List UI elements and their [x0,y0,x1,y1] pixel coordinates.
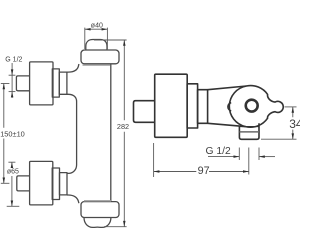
dim 282 bottom ext line [104,226,127,228]
dim G1/2 left bottom tick [9,91,16,93]
side stub [134,101,155,123]
cone to handle top edge [208,86,247,90]
arrowheads [3,28,295,227]
side block [155,74,188,137]
handle knob circle left part [229,86,246,127]
svg-text:G 1/2: G 1/2 [5,57,22,64]
dim 97 line [154,171,249,173]
svg-text:ø40: ø40 [91,22,103,29]
dim 150 bottom tick [1,182,10,184]
body left edge with fillets [67,94,77,173]
spout centerline ext (97 dim) [248,148,250,175]
dim 282 top ext line [94,39,127,41]
dim 282 line [123,40,125,227]
dim ø65 bottom tick [7,205,20,207]
dim 34 top ext line [285,106,297,108]
connector 2 top [59,72,67,94]
dim G1/2 left line [11,63,13,98]
side connector 2 [198,90,208,124]
282 arrows [123,40,126,46]
inlet block bottom [30,161,53,205]
svg-text:ø65: ø65 [7,169,19,176]
cone to handle bottom edge [208,123,246,126]
ø65 arrows [11,162,14,168]
connector 1 top [52,69,59,97]
labels [0,22,129,175]
dim ø65 line [11,162,13,206]
outlet spout [239,123,259,139]
dim 97 left ext line [153,143,155,177]
97 arrows [154,170,160,173]
connector 1 bottom [52,168,59,200]
dim 150 top tick [1,83,10,85]
spout top edge [239,126,259,128]
handle left notch [228,103,231,111]
bottom collar seam line [84,200,111,202]
150 arrows [3,84,6,90]
dim ø40 right ext line [106,28,108,49]
dim ø65 top tick [8,161,15,163]
body upper-left fillet [67,64,79,72]
dim G1/2 left top tick [9,74,16,76]
body right edge [110,64,112,202]
spout thread band [239,131,259,133]
dim G1/2 right right ext line [258,148,260,161]
top collar [81,50,119,64]
top dome cap [86,40,107,51]
dim ø40 left ext line [84,28,86,49]
dim ø40 line [85,28,108,30]
svg-text:282: 282 [117,122,129,131]
connector 2 bottom [60,173,68,195]
side connector 1 [187,84,197,128]
bottom collar [81,202,119,218]
34 arrows [292,107,295,113]
dim 34 line [292,107,294,139]
G1/2 right arrows (outside) [234,155,240,158]
svg-text:97: 97 [198,165,210,177]
body lower-left fillet [67,195,79,203]
top collar seam line [83,64,111,66]
dim 150 line [3,84,5,184]
dim G1/2 right line right tail [259,156,275,158]
handle knob right part with ear [246,86,284,128]
dim G1/2 right line left tail [208,156,239,158]
svg-text:34: 34 [289,117,300,131]
dim 34 bottom ext line [261,138,297,140]
inlet block top [30,62,53,105]
inlet stub bottom [17,176,30,191]
dimensions [1,28,297,227]
svg-text:G 1/2: G 1/2 [206,146,231,157]
bottom dome cap [84,218,111,228]
ø40 arrows [85,28,91,31]
inlet stub top [16,76,29,91]
dim G1/2 right left ext line [238,148,240,161]
G1/2 left arrows (outside) [11,69,14,75]
inner ring [246,100,258,112]
svg-text:150±10: 150±10 [0,129,25,138]
